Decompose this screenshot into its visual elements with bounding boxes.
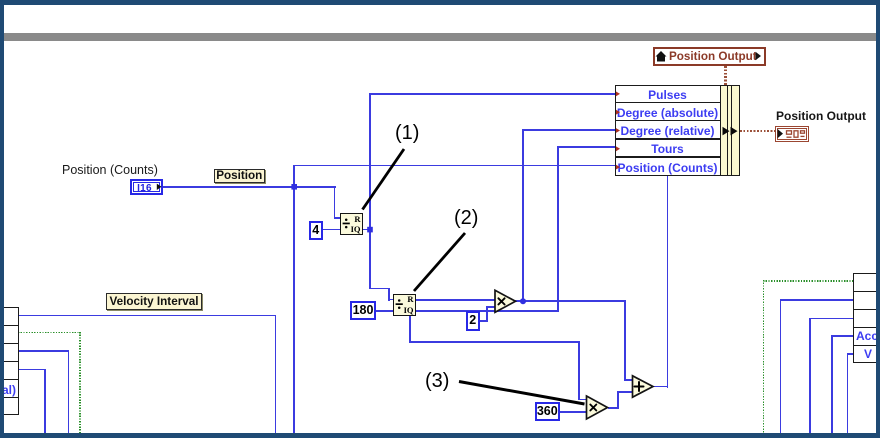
wire vertical x=275.5 down	[275, 315, 277, 434]
boolean wire left cluster dotted green	[18, 332, 81, 333]
wire into adder top input	[624, 379, 634, 381]
wire divider2 IQ output horizontal	[416, 310, 560, 312]
add node	[633, 376, 654, 397]
right cluster node rows (clipped by frame)	[853, 273, 880, 363]
wire Position(Counts) long horizontal to bundle	[293, 165, 615, 167]
bundle input arrow row4	[616, 146, 620, 151]
wire constant 4 to divider1	[322, 229, 341, 231]
bundle input arrow row3	[616, 128, 620, 133]
bundle row separator 4	[615, 156, 720, 158]
wire vertical x=68.5 down	[68, 350, 70, 433]
wire vertical x=579 down to multiply2	[578, 341, 580, 400]
wire left-cluster row3	[18, 350, 69, 352]
left cluster node rows (clipped by frame)	[1, 307, 19, 415]
right cluster separators	[853, 291, 880, 292]
wire divider2 R output to multiply1	[416, 299, 496, 301]
wire left-cluster row4	[18, 369, 46, 371]
bundle row text Pulses	[615, 88, 720, 102]
wire constant 2 output	[479, 320, 488, 322]
bundle row text Position (Counts)	[615, 161, 720, 175]
wire right-cluster row5	[847, 353, 855, 355]
wire into divider2 x input	[388, 299, 395, 301]
frame border right	[876, 0, 880, 438]
wire horizontal y=342 to x=579	[409, 341, 580, 343]
wire into divider1 x input	[334, 217, 342, 219]
boolean wire right vertical dotted green	[763, 280, 764, 433]
wire vertical x=523 degree-relative riser	[522, 129, 524, 303]
bundle input arrow row1	[616, 92, 620, 97]
label Position (Counts)	[62, 163, 182, 177]
local variable right arrow	[756, 52, 762, 60]
toolbar gray bar	[4, 33, 877, 41]
wire vertical x=617.7 up to adder	[617, 391, 619, 409]
wire into adder bottom input	[617, 391, 634, 393]
wire right-cluster row2	[780, 299, 854, 301]
callout label (2)	[454, 207, 478, 230]
bundle input arrow row5	[616, 165, 620, 170]
wire constant 360 to multiply2	[560, 411, 588, 413]
multiply node 2	[587, 396, 608, 419]
wire I16 output to junction and to divider 1	[161, 186, 336, 188]
bundle strip divider b	[731, 85, 732, 176]
frame border top	[0, 0, 880, 5]
wire adder output stub	[653, 386, 669, 388]
quotient-remainder divider 1	[340, 213, 363, 235]
wire vertical x=667.5 up to bundle bottom	[667, 176, 669, 388]
junction A on position wire	[291, 184, 297, 190]
wire vertical x=44.7 down	[44, 369, 46, 434]
wire junction B to divider2 horizontal	[369, 288, 390, 290]
right cluster text Acc	[856, 329, 880, 343]
junction B at divider1 output	[367, 227, 373, 233]
bundle row text Degree (absolute)	[615, 106, 720, 120]
wire vertical from 2 up	[486, 306, 488, 322]
wire multiply1 output to x=625	[515, 300, 626, 302]
right cluster text V	[864, 347, 872, 361]
multiply node 1	[495, 290, 516, 312]
wire vertical x=780.5 down	[780, 299, 782, 433]
divider1 divide glyph	[343, 219, 350, 229]
numeric constant 360	[535, 402, 561, 421]
wire left-cluster row1 to velocity interval run	[18, 315, 276, 317]
wire right-cluster row3	[809, 318, 854, 320]
wire into multiply2 top input	[578, 399, 588, 401]
wire divider1 IQ output stub	[363, 229, 372, 231]
bundle output strip	[720, 85, 740, 177]
quotient-remainder divider 2	[393, 294, 416, 316]
wire vertical x=810 down	[809, 318, 811, 434]
wire vertical x=625 down to adder	[624, 300, 626, 381]
wire right-cluster row4	[831, 335, 854, 337]
wire divider2 IQ branch down from under node	[409, 315, 411, 342]
wire multiply2 output stub	[608, 407, 619, 409]
bundle row text Degree (relative)	[615, 124, 720, 138]
cluster wire local variable down to bundle strip (dotted brown)	[724, 66, 727, 86]
local variable Position Output	[653, 47, 767, 66]
indicator inner arrow	[778, 129, 784, 138]
wire constant 180 to divider2	[376, 310, 394, 312]
bundle row separator 1	[615, 102, 720, 104]
bundle row text Tours	[615, 142, 720, 156]
numeric constant 2	[466, 311, 480, 331]
wire into multiply1 bottom input	[486, 306, 496, 308]
bundle row separator 2	[615, 120, 720, 122]
divider2 divide glyph	[396, 299, 403, 309]
I16 terminal output arrow	[157, 184, 162, 190]
label Velocity Interval	[106, 293, 202, 311]
bundle input arrow row2	[616, 110, 620, 115]
wire vertical x=370 pulses riser	[369, 93, 371, 289]
house icon in local variable	[656, 51, 667, 62]
bundle output double arrow	[723, 127, 730, 136]
wire long vertical from junction A down to bottom	[293, 165, 295, 434]
wire vertical x=832 down	[831, 335, 833, 433]
numeric constant 180	[350, 301, 376, 320]
callout line 1	[363, 149, 405, 210]
wire Tours horizontal to bundle	[557, 146, 616, 148]
frame border bottom	[0, 433, 880, 438]
label Position Output (indicator)	[776, 109, 866, 123]
junction C at multiply1 output	[520, 298, 526, 304]
indicator cluster glyphs	[787, 131, 805, 137]
wire vertical x=389	[388, 288, 390, 301]
boolean wire right cluster dotted green horizontal	[763, 280, 854, 281]
cluster wire bundle output to indicator (dotted brown)	[740, 130, 776, 133]
wire Degree (relative) horizontal to bundle	[522, 129, 616, 131]
wire vertical x=558 tours riser	[557, 146, 559, 312]
left cluster separators	[1, 325, 19, 326]
wire vertical drop into divider1 x input	[334, 186, 336, 219]
callout label (1)	[395, 122, 419, 145]
callout line 3	[459, 382, 585, 405]
indicator terminal Position Output	[775, 126, 810, 143]
wire Pulses horizontal to bundle	[369, 93, 615, 95]
callout line 2	[414, 233, 465, 291]
control terminal I16 Position (Counts)	[130, 179, 163, 195]
bundle strip divider a	[727, 85, 728, 176]
bundle-by-name node rows	[615, 85, 721, 177]
wire vertical x=847.5 down	[847, 353, 849, 433]
label Position	[214, 169, 266, 184]
boolean wire left vertical dotted green	[79, 332, 80, 433]
bundle row separator 3	[615, 138, 720, 140]
frame border left	[0, 0, 4, 438]
callout label (3)	[425, 370, 449, 393]
left cluster truncated text al)	[2, 383, 16, 397]
numeric constant 4	[309, 221, 323, 240]
